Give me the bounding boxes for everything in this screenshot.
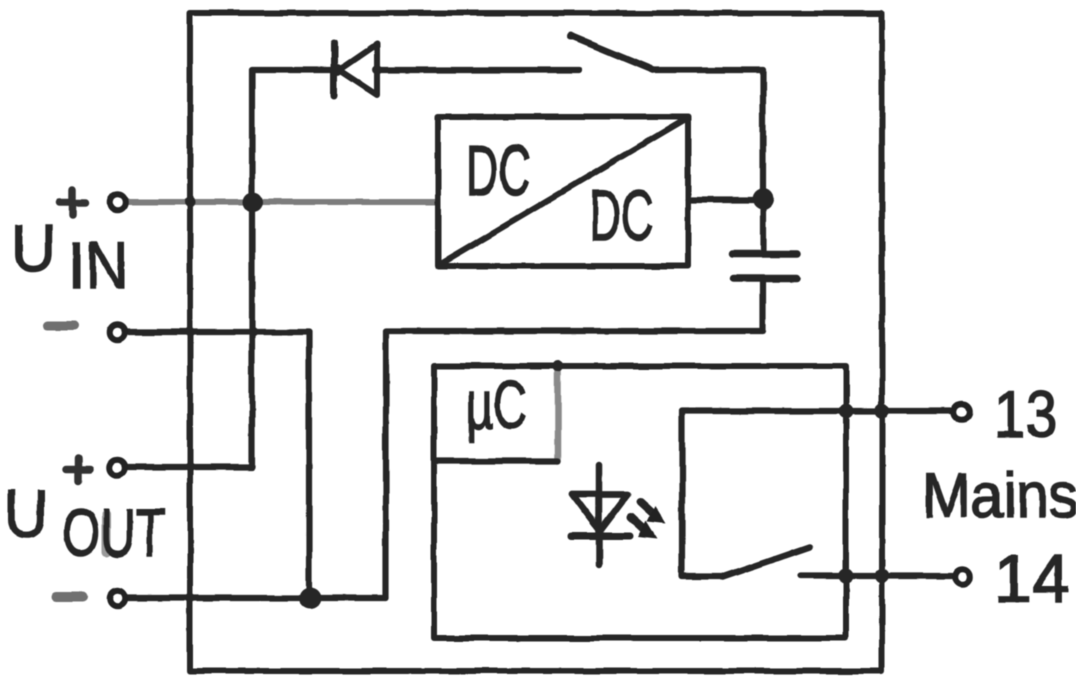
svg-text:13: 13 — [994, 378, 1057, 452]
svg-text:OUT: OUT — [62, 494, 165, 571]
svg-text:DC: DC — [589, 175, 654, 255]
svg-text:14: 14 — [994, 541, 1070, 617]
svg-text:IN: IN — [68, 230, 129, 303]
svg-text:DC: DC — [466, 130, 531, 210]
svg-text:U: U — [4, 477, 49, 552]
svg-text:µC: µC — [466, 367, 527, 443]
svg-text:Mains: Mains — [922, 460, 1076, 530]
svg-text:U: U — [11, 212, 56, 286]
